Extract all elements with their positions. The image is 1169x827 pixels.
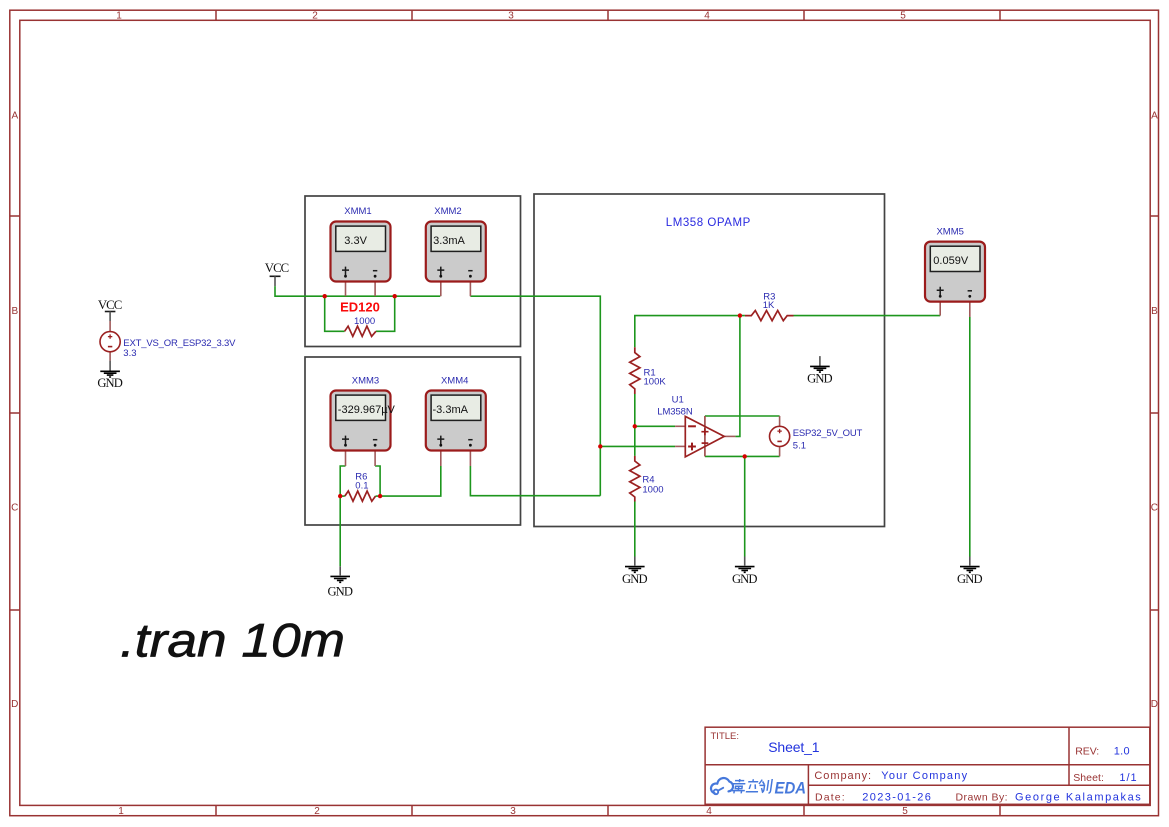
svg-text:Your Company: Your Company (881, 770, 967, 782)
svg-text:GND: GND (957, 572, 983, 586)
pin op-amp inverting input (675, 425, 685, 427)
resistor R3 1K (745, 291, 794, 320)
svg-text:GND: GND (732, 572, 758, 586)
ground GND under XMM5 (957, 557, 983, 586)
svg-text:C: C (11, 503, 18, 514)
svg-text:Sheet_1: Sheet_1 (768, 739, 820, 755)
pin XMM4 minus (469, 451, 471, 467)
svg-text:GND: GND (97, 376, 123, 390)
ground GND floating in box (807, 356, 833, 386)
wire node to op-amp plus input (600, 445, 675, 447)
wire XMM5 minus to GND (969, 317, 971, 557)
pin XMM5 minus (969, 302, 971, 317)
pin source V1 top (109, 321, 111, 332)
svg-text:100K: 100K (644, 376, 667, 387)
svg-text:3: 3 (508, 11, 514, 22)
svg-text:3.3: 3.3 (123, 348, 136, 359)
pin XMM2 minus (469, 282, 471, 297)
ground GND under R4 (622, 557, 648, 586)
svg-text:-329.967µV: -329.967µV (338, 404, 396, 416)
svg-text:XMM1: XMM1 (344, 206, 371, 217)
svg-text:5.1: 5.1 (793, 441, 806, 452)
svg-text:REV:: REV: (1075, 746, 1099, 758)
svg-text:U1: U1 (672, 394, 684, 405)
ground GND under op-amp rail (732, 557, 758, 586)
wire bottom rail to GND (744, 456, 746, 556)
pin XMM4 plus (440, 451, 442, 467)
power flag VCC main (98, 298, 122, 321)
svg-text:0.1: 0.1 (355, 480, 368, 491)
svg-text:-3.3mA: -3.3mA (433, 404, 469, 416)
pin op-amp output (724, 435, 735, 437)
svg-text:Drawn By:: Drawn By: (956, 792, 1008, 804)
svg-text:3.3V: 3.3V (344, 235, 367, 247)
svg-text:LM358N: LM358N (657, 407, 693, 418)
svg-text:LM358 OPAMP: LM358 OPAMP (666, 217, 751, 229)
svg-text:Sheet:: Sheet: (1073, 772, 1104, 784)
svg-text:EDA: EDA (775, 778, 807, 797)
pin op-amp power rail (704, 416, 706, 456)
junction feedback node (738, 313, 742, 317)
ground GND under V1 (97, 361, 123, 391)
pin source V1 bottom (109, 352, 111, 361)
svg-text:D: D (11, 699, 18, 710)
svg-text:EXT_VS_OR_ESP32_3.3V: EXT_VS_OR_ESP32_3.3V (123, 338, 236, 349)
svg-text:George Kalampakas: George Kalampakas (1015, 792, 1141, 804)
svg-text:0.059V: 0.059V (933, 255, 969, 267)
resistor ED120 1000 (340, 299, 380, 336)
multimeter XMM2 (426, 206, 486, 282)
svg-text:VCC: VCC (98, 298, 122, 312)
pin XMM5 plus (939, 302, 941, 316)
wire op-amp output riser (735, 316, 740, 437)
svg-text:GND: GND (622, 572, 648, 586)
wire R1 top to feedback rail (635, 316, 745, 348)
svg-text:B: B (1151, 306, 1158, 317)
wire R6 left lead (340, 495, 345, 497)
svg-text:ESP32_5V_OUT: ESP32_5V_OUT (793, 428, 863, 439)
svg-text:2: 2 (314, 806, 320, 817)
wire XMM3 minus to R6 right (375, 466, 380, 496)
pin XMM3 minus (374, 451, 376, 467)
svg-text:3: 3 (510, 806, 516, 817)
svg-text:.tran 10m: .tran 10m (120, 615, 345, 668)
svg-text:XMM3: XMM3 (352, 376, 379, 387)
wire op-amp V- rail to source bottom (705, 455, 780, 457)
svg-text:XMM2: XMM2 (434, 206, 461, 217)
wire op-amp V+ rail to source top (705, 415, 780, 417)
multimeter XMM4 (426, 376, 486, 451)
svg-text:3.3mA: 3.3mA (433, 235, 465, 247)
annotation box XMM3 XMM4 (305, 357, 521, 525)
svg-text:C: C (1151, 503, 1158, 514)
svg-text:GND: GND (807, 372, 833, 386)
svg-text:1K: 1K (763, 300, 775, 311)
wire XMM3 plus to R6 left (340, 466, 345, 496)
svg-text:XMM4: XMM4 (441, 376, 468, 387)
pin source V2 top (779, 416, 781, 426)
pin XMM1 minus (374, 282, 376, 297)
pin XMM3 plus (345, 451, 347, 467)
resistor R4 1000 (630, 456, 664, 502)
svg-text:5: 5 (900, 11, 906, 22)
LOGO (decorative) (711, 778, 733, 794)
wire R6 right to XMM4 plus (380, 466, 441, 496)
wire XMM2 minus to vertical riser (470, 296, 600, 496)
wire VCC to trunk (275, 286, 440, 296)
svg-text:Company:: Company: (814, 770, 871, 782)
svg-text:VCC: VCC (265, 261, 289, 275)
wire R6 right lead (376, 495, 381, 497)
svg-text:GND: GND (327, 585, 353, 599)
wire R1 bottom to R4 top (634, 394, 636, 456)
resistor R6 0.1 (345, 472, 376, 502)
junction ED120 left (323, 294, 327, 298)
svg-text:ED120: ED120 (340, 299, 380, 314)
pin XMM2 plus (440, 282, 442, 297)
wire XMM4 minus to riser (470, 466, 600, 496)
resistor R1 100K (630, 347, 667, 394)
annotation box LM358 OPAMP (534, 194, 885, 527)
voltage source V1 EXT_VS_OR_ESP32_3.3V (100, 332, 236, 359)
svg-text:1: 1 (116, 11, 122, 22)
multimeter XMM1 (331, 206, 391, 282)
multimeter XMM3 (331, 376, 396, 451)
svg-text:2: 2 (312, 11, 318, 22)
wire R6 left to GND (339, 496, 341, 566)
wire ED120 branch right (376, 296, 395, 331)
junction ED120 right (393, 294, 397, 298)
svg-text:1.0: 1.0 (1114, 746, 1130, 758)
svg-text:2023-01-26: 2023-01-26 (862, 792, 931, 804)
wire R4 bottom to GND (634, 502, 636, 557)
svg-text:1000: 1000 (354, 316, 375, 327)
junction op-amp minus node (633, 424, 637, 428)
junction op-amp plus node (598, 444, 602, 448)
svg-text:1: 1 (118, 806, 124, 817)
junction R6 left (338, 494, 342, 498)
wire R3 right to XMM5 plus (794, 315, 941, 317)
svg-text:XMM5: XMM5 (936, 226, 963, 237)
op-amp U1 LM358N (657, 394, 724, 457)
power flag VCC at trunk (265, 261, 289, 286)
svg-text:4: 4 (706, 806, 712, 817)
svg-text:A: A (1151, 111, 1158, 122)
junction R6 right (378, 494, 382, 498)
svg-text:Date:: Date: (815, 792, 845, 804)
svg-text:TITLE:: TITLE: (711, 731, 740, 742)
svg-text:A: A (11, 111, 18, 122)
svg-text:4: 4 (704, 11, 710, 22)
svg-text:5: 5 (902, 806, 908, 817)
voltage source V2 ESP32_5V_OUT (770, 426, 863, 451)
multimeter XMM5 (925, 226, 985, 301)
svg-text:B: B (11, 306, 18, 317)
junction bottom rail node (743, 454, 747, 458)
svg-text:1000: 1000 (642, 485, 663, 496)
wire node to op-amp minus input (635, 425, 675, 427)
pin op-amp non-inverting input (675, 445, 685, 447)
TITLE BLOCK (decorative) (705, 727, 1150, 804)
pin source V2 bottom (779, 447, 781, 457)
svg-text:D: D (1151, 699, 1158, 710)
annotation box XMM1 XMM2 (305, 196, 521, 347)
ground GND under R6 (327, 566, 353, 598)
pin XMM1 plus (345, 282, 347, 297)
wire ED120 branch left (325, 296, 345, 331)
svg-text:1/1: 1/1 (1119, 772, 1136, 784)
